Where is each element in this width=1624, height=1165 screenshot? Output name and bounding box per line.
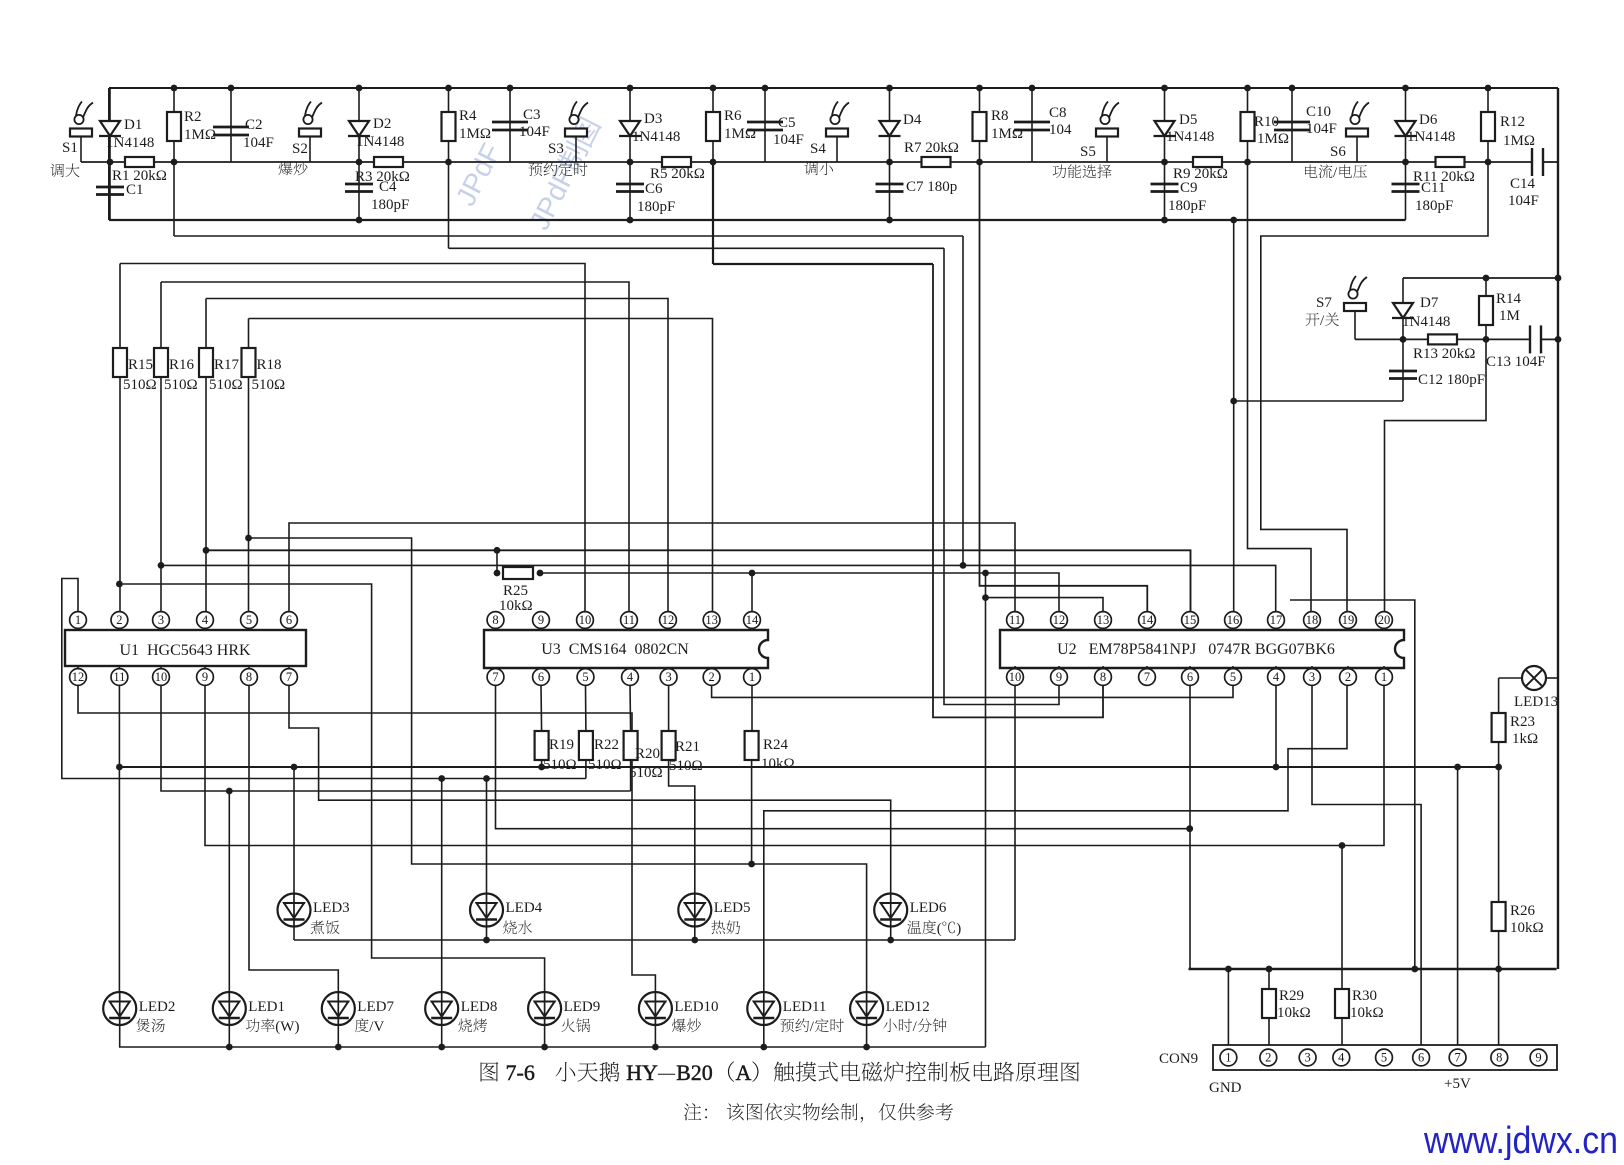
svg-text:5: 5 (1381, 1051, 1387, 1065)
svg-text:16: 16 (1227, 613, 1240, 627)
svg-text:C10: C10 (1306, 104, 1331, 120)
svg-text:D2: D2 (373, 116, 391, 132)
svg-text:CON9: CON9 (1159, 1051, 1198, 1067)
svg-text:12: 12 (1053, 613, 1066, 627)
svg-text:104F: 104F (243, 135, 274, 151)
svg-text:1MΩ: 1MΩ (1503, 133, 1535, 149)
svg-text:10: 10 (155, 670, 168, 684)
svg-text:R26: R26 (1510, 903, 1536, 919)
svg-text:18: 18 (1306, 613, 1319, 627)
svg-text:180pF: 180pF (637, 199, 675, 215)
svg-text:S1: S1 (62, 140, 78, 156)
svg-text:A: A (736, 1060, 752, 1085)
svg-text:10kΩ: 10kΩ (1350, 1005, 1384, 1021)
svg-text:180pF: 180pF (1168, 198, 1206, 214)
svg-text:1N4148: 1N4148 (1402, 314, 1450, 330)
svg-text:104F: 104F (1306, 121, 1337, 137)
svg-text:8: 8 (246, 670, 252, 684)
svg-text:14: 14 (746, 613, 759, 627)
svg-text:R15: R15 (128, 357, 153, 373)
svg-text:LED11: LED11 (783, 999, 827, 1015)
svg-text:(: ( (937, 921, 942, 937)
svg-text:LED7: LED7 (357, 999, 394, 1015)
svg-text:13: 13 (705, 613, 718, 627)
svg-text:510Ω: 510Ω (164, 377, 198, 393)
svg-text:4: 4 (202, 613, 209, 627)
svg-text:C1: C1 (126, 182, 144, 198)
svg-text:1kΩ: 1kΩ (1512, 731, 1538, 747)
svg-text:17: 17 (1270, 613, 1283, 627)
svg-text:3: 3 (158, 613, 164, 627)
svg-text:15: 15 (1184, 613, 1197, 627)
svg-text:104: 104 (1049, 122, 1072, 138)
svg-text:LED8: LED8 (461, 999, 498, 1015)
svg-text:510Ω: 510Ω (209, 377, 243, 393)
svg-text:8: 8 (1100, 670, 1106, 684)
svg-text:LED6: LED6 (910, 900, 947, 916)
svg-text:D4: D4 (903, 112, 922, 128)
svg-text:9: 9 (538, 613, 544, 627)
svg-text:1MΩ: 1MΩ (1257, 131, 1289, 147)
svg-text:7-6: 7-6 (500, 1060, 551, 1085)
svg-text:S3: S3 (548, 141, 564, 157)
svg-text:8: 8 (1496, 1051, 1502, 1065)
svg-text:4: 4 (1338, 1051, 1345, 1065)
svg-text:1: 1 (1225, 1051, 1231, 1065)
svg-text:B20: B20 (676, 1060, 713, 1085)
svg-text:13: 13 (1097, 613, 1110, 627)
svg-text:R10: R10 (1254, 114, 1279, 130)
svg-text:6: 6 (286, 613, 292, 627)
svg-text:S5: S5 (1080, 144, 1096, 160)
svg-text:C3: C3 (523, 107, 541, 123)
svg-text:104F: 104F (773, 132, 804, 148)
svg-text:C14: C14 (1510, 176, 1536, 192)
svg-text:C13 104F: C13 104F (1486, 354, 1546, 370)
svg-text:R2: R2 (184, 109, 202, 125)
svg-text:12: 12 (72, 670, 85, 684)
svg-text:R19: R19 (549, 737, 574, 753)
svg-text:14: 14 (1141, 613, 1154, 627)
svg-text:GND: GND (1209, 1080, 1242, 1096)
svg-text:7: 7 (286, 670, 292, 684)
svg-text:180pF: 180pF (1415, 198, 1453, 214)
svg-text:1: 1 (75, 613, 81, 627)
svg-text:S7: S7 (1316, 295, 1332, 311)
svg-text:www.jdwx.cn: www.jdwx.cn (1423, 1120, 1618, 1160)
svg-text:10: 10 (1009, 670, 1022, 684)
svg-text:10: 10 (579, 613, 592, 627)
svg-text:9: 9 (202, 670, 208, 684)
svg-text:C9: C9 (1180, 180, 1198, 196)
svg-text:11: 11 (1009, 613, 1021, 627)
svg-text:2: 2 (116, 613, 122, 627)
svg-text:20: 20 (1378, 613, 1391, 627)
svg-text:510Ω: 510Ω (629, 765, 663, 781)
svg-text:+5V: +5V (1444, 1076, 1471, 1092)
svg-text:D7: D7 (1420, 295, 1439, 311)
svg-text:LED10: LED10 (674, 999, 718, 1015)
svg-text:2: 2 (1265, 1051, 1271, 1065)
svg-text:R14: R14 (1496, 291, 1522, 307)
svg-text:19: 19 (1342, 613, 1355, 627)
svg-text:R22: R22 (594, 737, 619, 753)
svg-text:7: 7 (492, 670, 498, 684)
svg-text:6: 6 (1187, 670, 1193, 684)
svg-text:3: 3 (1304, 1051, 1310, 1065)
svg-text:R17: R17 (214, 357, 240, 373)
svg-text:9: 9 (1056, 670, 1062, 684)
svg-text:11: 11 (113, 670, 125, 684)
svg-text:R16: R16 (169, 357, 195, 373)
svg-text:1N4148: 1N4148 (1407, 129, 1455, 145)
svg-text:LED9: LED9 (564, 999, 601, 1015)
svg-text:C6: C6 (645, 181, 663, 197)
svg-text:6: 6 (538, 670, 544, 684)
svg-text:D6: D6 (1419, 112, 1438, 128)
svg-text:10kΩ: 10kΩ (499, 598, 533, 614)
svg-text:D3: D3 (644, 111, 662, 127)
svg-text:/V: /V (369, 1019, 384, 1035)
svg-text:R12: R12 (1500, 114, 1525, 130)
svg-text:1N4148: 1N4148 (632, 129, 680, 145)
svg-text:S4: S4 (810, 141, 826, 157)
svg-text:R4: R4 (459, 108, 477, 124)
svg-text:C11: C11 (1421, 180, 1445, 196)
svg-text:510Ω: 510Ω (543, 757, 577, 773)
svg-text:C2: C2 (245, 117, 263, 133)
svg-text:R5 20kΩ: R5 20kΩ (650, 166, 705, 182)
svg-text:R6: R6 (724, 108, 742, 124)
svg-text:LED4: LED4 (506, 900, 543, 916)
svg-text:104F: 104F (519, 124, 550, 140)
svg-text:R13 20kΩ: R13 20kΩ (1413, 346, 1475, 362)
svg-text:510Ω: 510Ω (588, 757, 622, 773)
svg-text:5: 5 (246, 613, 252, 627)
svg-text:2: 2 (1345, 670, 1351, 684)
svg-text:R20: R20 (635, 746, 660, 762)
svg-text:D5: D5 (1179, 112, 1197, 128)
svg-text:6: 6 (1418, 1051, 1424, 1065)
svg-text:4: 4 (627, 670, 634, 684)
svg-text:R7 20kΩ: R7 20kΩ (904, 140, 959, 156)
svg-text:S2: S2 (292, 141, 308, 157)
svg-text:R8: R8 (991, 108, 1009, 124)
svg-text:(W): (W) (275, 1019, 299, 1035)
svg-text:R30: R30 (1352, 988, 1377, 1004)
svg-text:R29: R29 (1279, 988, 1304, 1004)
svg-text:2: 2 (708, 670, 714, 684)
svg-text:1: 1 (749, 670, 755, 684)
svg-text:1MΩ: 1MΩ (991, 126, 1023, 142)
svg-text:8: 8 (492, 613, 498, 627)
svg-text:180pF: 180pF (371, 197, 409, 213)
svg-text:R21: R21 (675, 739, 700, 755)
svg-text:7: 7 (1454, 1051, 1460, 1065)
svg-text:1MΩ: 1MΩ (724, 126, 756, 142)
svg-text:1N4148: 1N4148 (356, 134, 404, 150)
svg-text:R23: R23 (1510, 714, 1535, 730)
svg-text:R18: R18 (257, 357, 282, 373)
svg-text:10kΩ: 10kΩ (1510, 920, 1544, 936)
svg-text:1MΩ: 1MΩ (459, 126, 491, 142)
svg-text:510Ω: 510Ω (123, 377, 157, 393)
svg-text:5: 5 (1230, 670, 1236, 684)
svg-text:11: 11 (623, 613, 635, 627)
svg-text:R25: R25 (503, 583, 528, 599)
svg-text:U1 HGC5643 HRK: U1 HGC5643 HRK (119, 642, 251, 659)
svg-text:4: 4 (1273, 670, 1280, 684)
svg-text:LED5: LED5 (714, 900, 751, 916)
svg-text:510Ω: 510Ω (252, 377, 286, 393)
svg-text:S6: S6 (1330, 144, 1346, 160)
svg-text:1N4148: 1N4148 (106, 135, 154, 151)
svg-text:C5: C5 (778, 115, 796, 131)
svg-text:104F: 104F (1508, 193, 1539, 209)
svg-text:C12 180pF: C12 180pF (1418, 372, 1485, 388)
svg-text:U3 CMS164 0802CN: U3 CMS164 0802CN (541, 641, 689, 658)
svg-text:LED2: LED2 (139, 999, 176, 1015)
svg-text:): ) (956, 921, 961, 937)
svg-text:5: 5 (582, 670, 588, 684)
svg-text:HY: HY (621, 1060, 658, 1085)
svg-text:D1: D1 (124, 117, 142, 133)
svg-text:C4: C4 (379, 179, 397, 195)
svg-text:LED3: LED3 (313, 900, 350, 916)
svg-text:510Ω: 510Ω (669, 758, 703, 774)
svg-text:C8: C8 (1049, 105, 1067, 121)
svg-text:LED1: LED1 (248, 999, 285, 1015)
svg-text:3: 3 (1309, 670, 1315, 684)
svg-text:1MΩ: 1MΩ (184, 127, 216, 143)
svg-text:LED12: LED12 (886, 999, 930, 1015)
svg-text:U2 EM78P5841NPJ 0747R BGG0: U2 EM78P5841NPJ 0747R BGG07BK6 (1057, 641, 1335, 658)
svg-text:7: 7 (1144, 670, 1150, 684)
svg-text:10kΩ: 10kΩ (1277, 1005, 1311, 1021)
svg-text:1M: 1M (1499, 308, 1520, 324)
svg-text:C7 180p: C7 180p (906, 179, 957, 195)
svg-text:9: 9 (1535, 1051, 1541, 1065)
svg-text:1: 1 (1381, 670, 1387, 684)
svg-text:LED13: LED13 (1514, 694, 1558, 710)
svg-text:3: 3 (665, 670, 671, 684)
svg-text:10kΩ: 10kΩ (761, 756, 795, 772)
svg-text:R24: R24 (763, 737, 789, 753)
svg-text:1N4148: 1N4148 (1166, 129, 1214, 145)
svg-text:12: 12 (662, 613, 675, 627)
